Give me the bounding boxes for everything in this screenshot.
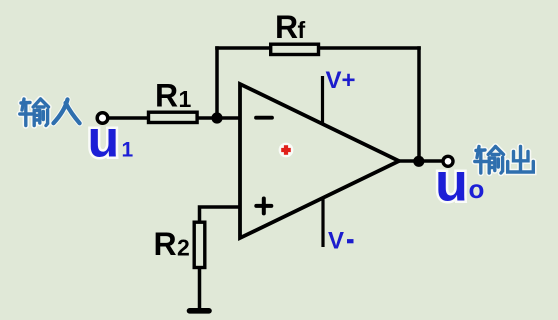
resistor R1	[149, 112, 198, 122]
svg-text:1: 1	[179, 86, 192, 112]
svg-text:R: R	[154, 226, 177, 262]
wire op-amp output to terminal	[399, 159, 443, 163]
red marker inside op-amp	[279, 143, 294, 158]
output node dot	[413, 156, 424, 167]
output terminal	[443, 156, 453, 166]
label 输出 (output)	[475, 147, 534, 174]
svg-text:V: V	[328, 227, 344, 254]
label 输入 (input)	[20, 99, 80, 126]
svg-text:o: o	[469, 174, 485, 204]
svg-text:2: 2	[177, 234, 190, 260]
node A junction dot	[211, 112, 222, 123]
wire junction up to feedback	[215, 46, 219, 118]
wire plus input to R2	[200, 207, 241, 222]
V- supply stub	[321, 199, 324, 247]
wire R2 to ground	[198, 268, 202, 310]
wire Rf to right corner	[320, 46, 421, 50]
plus input symbol	[256, 199, 271, 214]
resistor R2	[194, 222, 205, 267]
wire R1 to op-amp	[199, 116, 241, 120]
input terminal	[97, 113, 108, 124]
ground	[190, 308, 210, 314]
V+ supply stub	[321, 76, 324, 124]
svg-text:1: 1	[122, 139, 134, 162]
svg-text:f: f	[298, 17, 306, 43]
svg-text:R: R	[275, 9, 298, 45]
svg-text:u: u	[435, 153, 468, 213]
resistor Rf	[271, 44, 319, 54]
svg-text:V+: V+	[326, 67, 356, 94]
op-amp U1 triangle	[240, 84, 399, 238]
minus input symbol	[256, 116, 272, 120]
wire input to R1	[109, 116, 149, 120]
svg-text:R: R	[155, 78, 178, 114]
wire top-left to Rf	[215, 46, 269, 50]
wire feedback down to output node	[417, 46, 421, 161]
